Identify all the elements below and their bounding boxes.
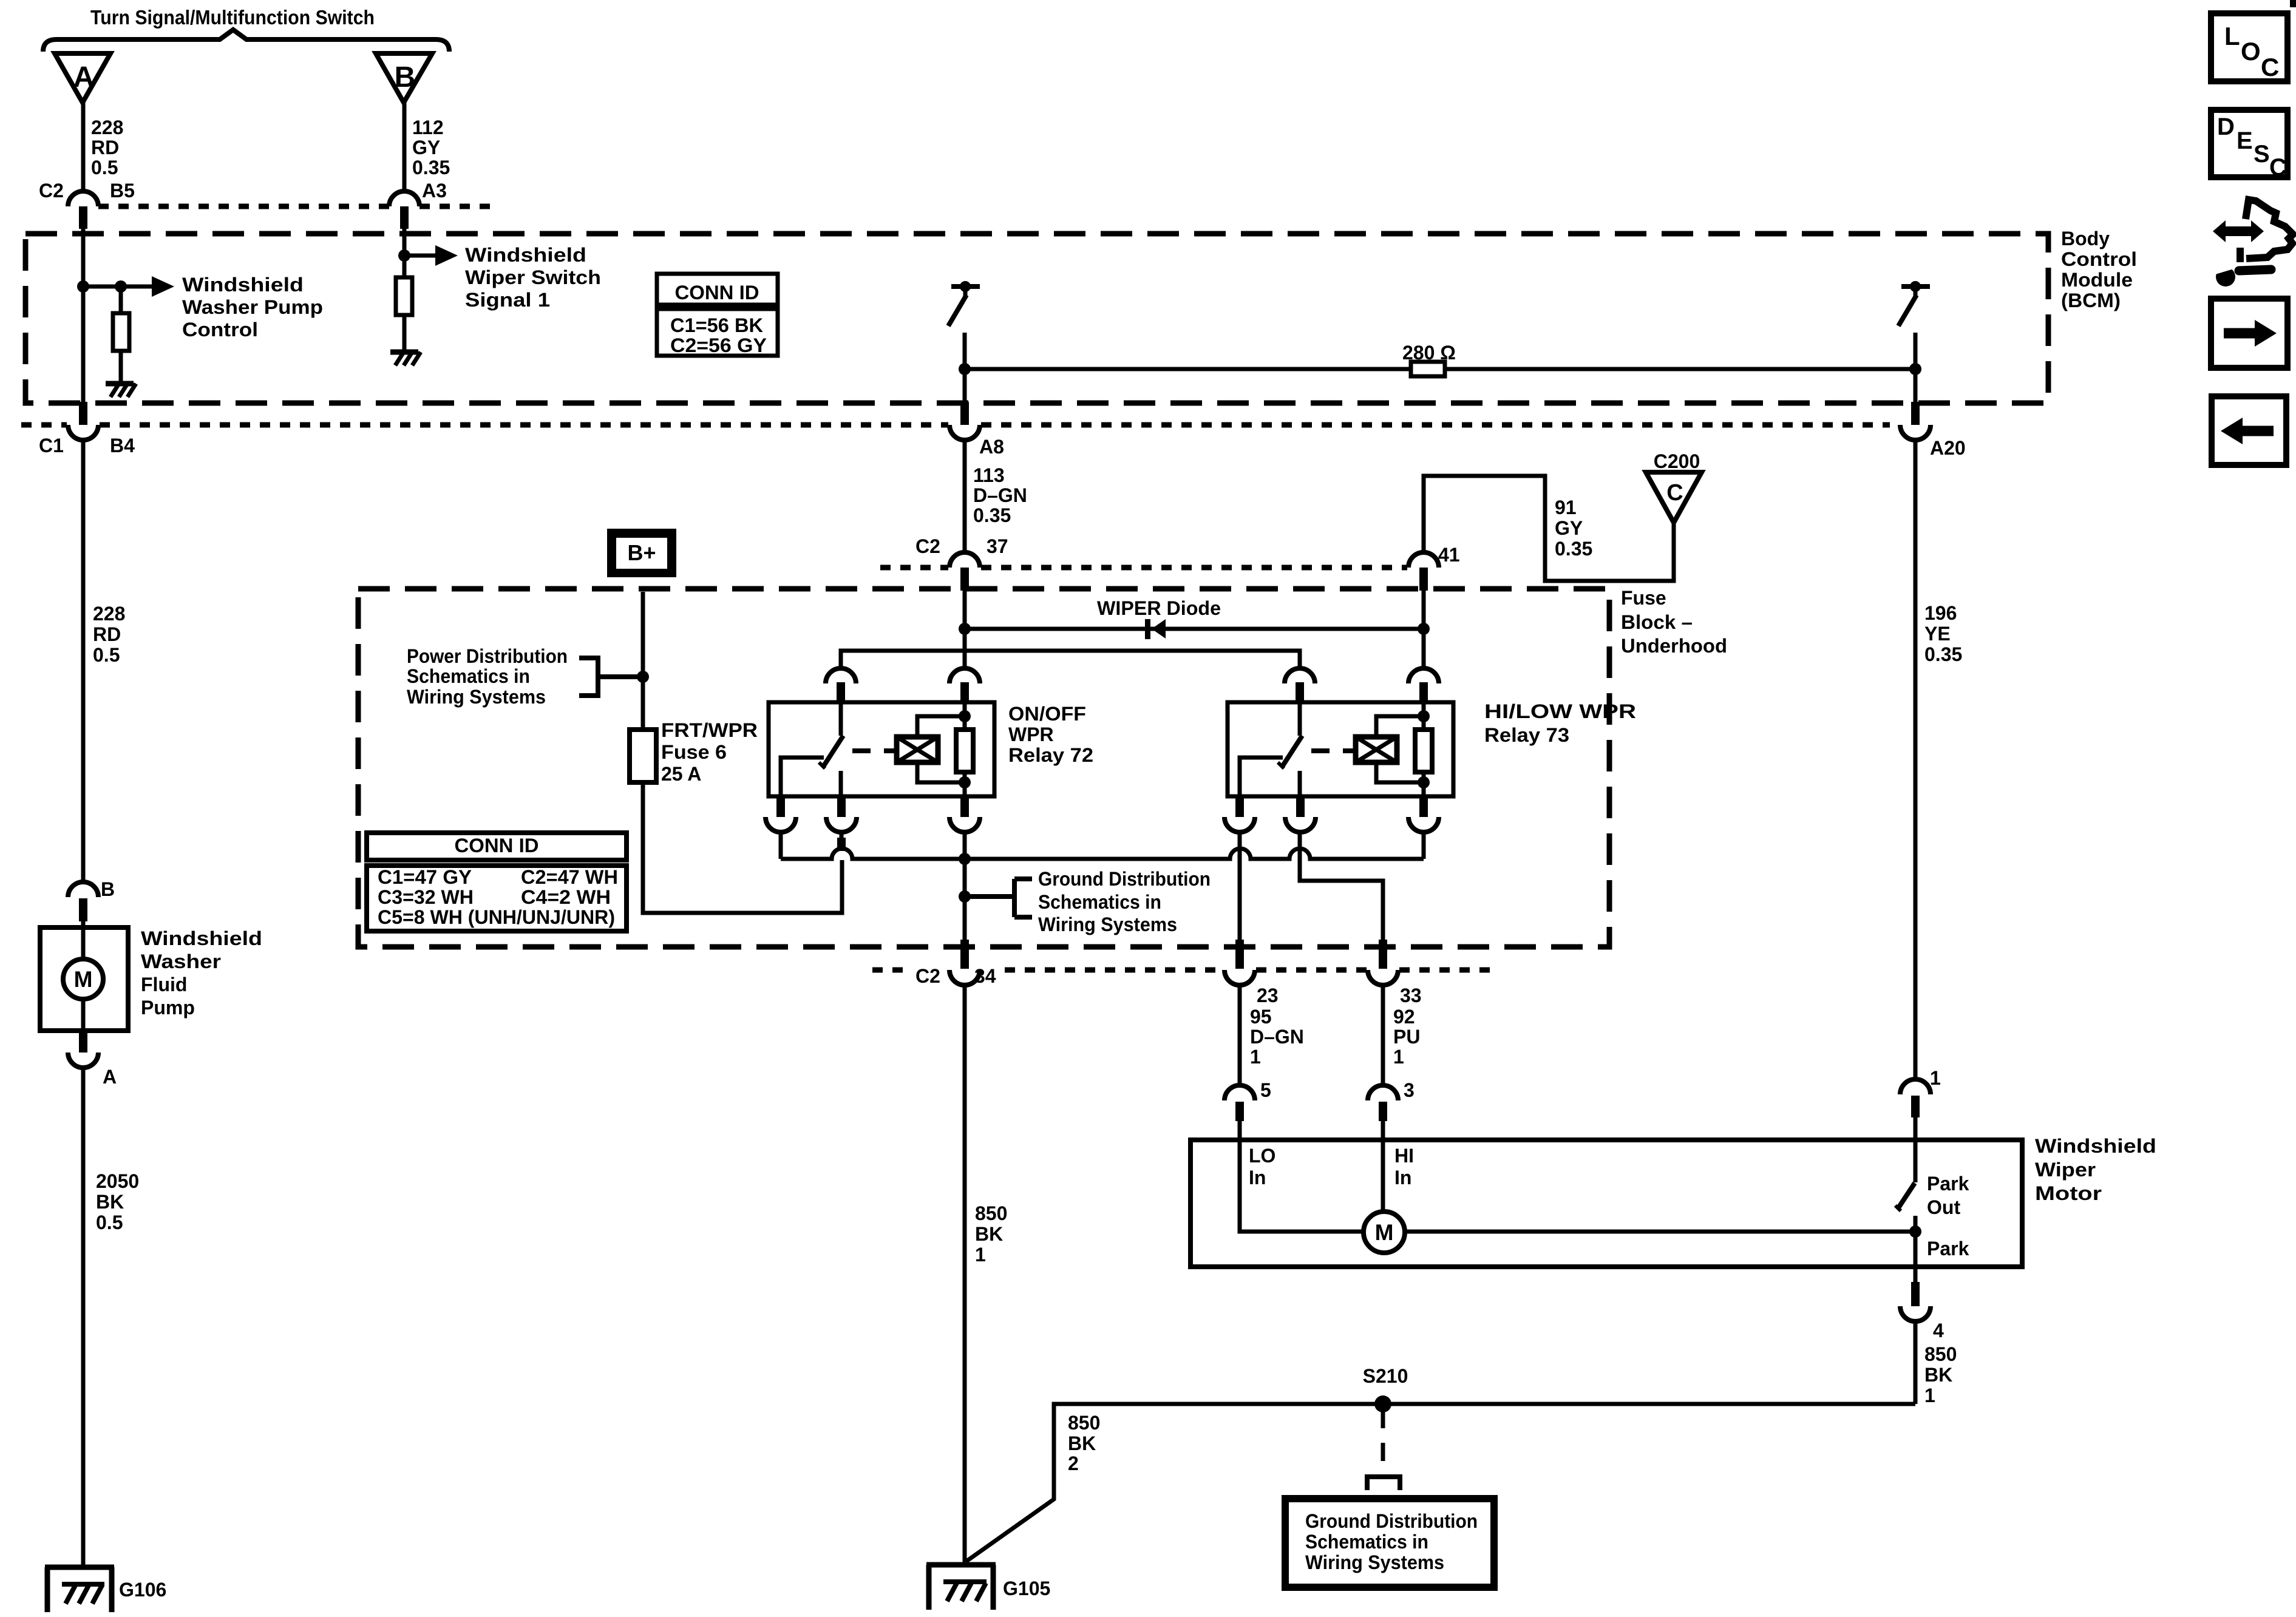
svg-text:B+: B+ [627, 540, 656, 565]
svg-text:HI: HI [1394, 1145, 1414, 1167]
svg-text:850: 850 [1924, 1343, 1957, 1365]
svg-text:C3=32 WH: C3=32 WH [378, 886, 474, 908]
wire diode line [965, 627, 1424, 631]
connector 33 cup [1368, 970, 1398, 985]
connector 1 [1900, 1079, 1931, 1117]
table CONN ID (fuse block) [367, 833, 627, 931]
svg-text:G106: G106 [119, 1579, 166, 1601]
pin A20 [1911, 402, 1920, 425]
connector C2-34 cup [949, 970, 980, 985]
brace for Turn Signal/Multifunction Switch [43, 30, 449, 52]
wire to pull-down resistor [119, 286, 123, 313]
wire relay73 switch pin to connector 33 [1300, 832, 1383, 940]
svg-text:C2: C2 [915, 965, 940, 987]
relay HI/LOW WPR Relay 73 box [1228, 702, 1453, 796]
svg-text:850: 850 [1068, 1412, 1100, 1434]
wire label 92 PU 1 [1393, 1006, 1420, 1068]
svg-text:Park: Park [1927, 1173, 1969, 1195]
wire connector 4 to S210 [1914, 1321, 1918, 1404]
ground G105 [926, 1565, 996, 1610]
svg-text:0.35: 0.35 [1924, 643, 1962, 665]
power feed B+ [607, 529, 676, 577]
wire C2-37 pin to relay72 coil [963, 591, 967, 668]
svg-text:1: 1 [975, 1244, 986, 1266]
svg-text:Windshield: Windshield [465, 244, 586, 266]
wire label 113 D-GN 0.35 [973, 464, 1027, 526]
diode WIPER (cathode bar + arrow) [1145, 619, 1166, 639]
svg-text:95: 95 [1250, 1006, 1272, 1028]
svg-text:C: C [1666, 480, 1683, 506]
svg-text:S: S [2254, 141, 2270, 168]
svg-text:Washer Pump: Washer Pump [182, 296, 323, 318]
svg-text:C5=8 WH (UNH/UNJ/UNR): C5=8 WH (UNH/UNJ/UNR) [378, 906, 615, 928]
svg-text:Fuse 6: Fuse 6 [661, 741, 727, 763]
svg-text:C2=47 WH: C2=47 WH [521, 866, 618, 888]
svg-text:Wiring Systems: Wiring Systems [1305, 1551, 1444, 1573]
svg-text:ON/OFF: ON/OFF [1008, 703, 1086, 725]
svg-text:0.35: 0.35 [973, 504, 1011, 526]
svg-text:Schematics in: Schematics in [1305, 1531, 1428, 1553]
relay ON/OFF WPR Relay 72 actuator dashed link [852, 748, 897, 753]
svg-text:L: L [2224, 22, 2240, 50]
node resistor tap [115, 280, 127, 293]
pin C1/B4 [79, 402, 87, 425]
svg-text:1: 1 [1924, 1385, 1935, 1406]
wire label 112 GY 0.35 [412, 117, 450, 178]
label Windshield Wiper Motor [2035, 1135, 2156, 1204]
svg-text:M: M [74, 967, 93, 992]
svg-text:Park: Park [1927, 1238, 1969, 1259]
wire B+ to fuse [641, 592, 645, 730]
node diode line right [1418, 623, 1430, 635]
node ground distribution tap [959, 890, 971, 903]
bracket ground distribution [965, 879, 1032, 917]
wire A3 pin into BCM [402, 229, 407, 277]
svg-text:YE: YE [1924, 623, 1951, 645]
svg-text:B5: B5 [110, 180, 135, 202]
pin 23 [1235, 940, 1244, 969]
svg-text:4: 4 [1933, 1320, 1944, 1341]
svg-text:2: 2 [1068, 1453, 1079, 1474]
svg-text:Motor: Motor [2035, 1182, 2102, 1204]
wire connector 1 to park switch [1914, 1117, 1918, 1182]
wiper motor M [1364, 1212, 1405, 1253]
arrow Windshield Wiper Switch Signal 1 [404, 245, 458, 266]
svg-text:RD: RD [91, 137, 119, 158]
washer pump box [40, 927, 128, 1031]
svg-text:C2: C2 [915, 535, 940, 557]
svg-text:WPR: WPR [1008, 724, 1054, 745]
svg-text:228: 228 [91, 117, 123, 138]
node HI/LOW WPR Relay 73 coil top [1418, 710, 1430, 722]
connector A20 cup [1900, 425, 1931, 440]
wire S210 splice line [966, 1404, 1915, 1561]
ground G106 [45, 1567, 114, 1612]
svg-text:113: 113 [973, 464, 1005, 486]
wire B5 pin into BCM [81, 229, 86, 286]
relay HI/LOW WPR Relay 73 coil [1356, 737, 1397, 762]
relay ON/OFF WPR Relay 72 coil [897, 737, 938, 762]
svg-text:Ground Distribution: Ground Distribution [1305, 1510, 1478, 1532]
wire relay72 fixed contact to internal line [779, 832, 783, 859]
node ON/OFF WPR Relay 72 coil bottom [959, 776, 971, 788]
svg-text:Power Distribution: Power Distribution [407, 645, 568, 667]
svg-text:Wiper Switch: Wiper Switch [465, 266, 601, 288]
wire relay switch feed line [841, 651, 1300, 668]
resistor washer branch pull-down [113, 313, 129, 351]
pin 4 [1911, 1282, 1920, 1306]
svg-text:Windshield: Windshield [2035, 1135, 2156, 1157]
svg-text:Windshield: Windshield [182, 274, 304, 296]
svg-text:Module: Module [2061, 269, 2133, 291]
svg-text:33: 33 [1400, 985, 1422, 1006]
connector C1/B4 cup [68, 425, 98, 440]
svg-text:0.5: 0.5 [96, 1212, 123, 1233]
svg-text:M: M [1375, 1220, 1394, 1245]
svg-text:A20: A20 [1930, 437, 1966, 459]
relay HI/LOW WPR Relay 73 actuator dashed link [1311, 748, 1356, 753]
wire 280 ohm line right [1445, 367, 1915, 371]
svg-text:C200: C200 [1654, 450, 1700, 472]
relay ON/OFF WPR Relay 72 box [769, 702, 994, 796]
connector ON/OFF WPR Relay 72 coil pin top [949, 668, 980, 702]
svg-text:S210: S210 [1363, 1365, 1408, 1387]
wire 41 pin to relay73 coil [1422, 591, 1426, 668]
wire label 228 RD 0.5 lower [93, 603, 125, 666]
wire 95 D-GN to connector 5 [1238, 985, 1242, 1085]
wire relay72 switch pin to fuse feed [837, 832, 846, 851]
node wiper switch signal [398, 249, 410, 262]
switch park out [1895, 1183, 1915, 1211]
svg-text:196: 196 [1924, 602, 1957, 624]
svg-text:PU: PU [1393, 1026, 1420, 1048]
svg-text:Relay 72: Relay 72 [1008, 744, 1093, 766]
relay ON/OFF WPR Relay 72 switch [819, 702, 843, 796]
svg-text:O: O [2241, 37, 2261, 66]
svg-text:C1: C1 [39, 435, 64, 456]
svg-text:Turn Signal/Multifunction Swit: Turn Signal/Multifunction Switch [90, 6, 375, 29]
svg-text:1: 1 [1930, 1067, 1941, 1089]
svg-text:A: A [103, 1066, 117, 1088]
wire dashed S210 to ground distribution [1381, 1410, 1385, 1473]
svg-text:Control: Control [2061, 248, 2137, 270]
node internal line at relay72 coil [959, 853, 971, 865]
connector HI/LOW WPR Relay 73 coil pin bottom [1408, 796, 1439, 832]
wire branch to resistor tap [83, 285, 121, 289]
label FRT/WPR Fuse 6 25 A [661, 719, 758, 785]
connector ON/OFF WPR Relay 72 switch pin top [826, 668, 856, 702]
off-page ground symbol [1367, 1477, 1400, 1490]
svg-text:Wiper: Wiper [2035, 1159, 2096, 1181]
svg-text:BK: BK [975, 1223, 1003, 1245]
svg-text:A3: A3 [422, 180, 447, 202]
svg-text:LO: LO [1249, 1145, 1275, 1167]
switch BCM wiper on/off output [948, 281, 980, 326]
label Body Control Module (BCM) [2061, 228, 2137, 311]
icon right arrow box [2211, 299, 2288, 368]
wire relay73 coil bottom to internal line [1422, 832, 1426, 859]
node HI/LOW WPR Relay 73 coil bottom [1418, 776, 1430, 788]
svg-text:23: 23 [1257, 985, 1279, 1006]
svg-text:D–GN: D–GN [1250, 1026, 1304, 1048]
resistor 280 ohm [1411, 362, 1445, 376]
svg-text:C: C [2261, 53, 2279, 81]
svg-text:228: 228 [93, 603, 125, 625]
connector C2-37 [949, 552, 980, 591]
Fuse Block Underhood dashed boundary [358, 589, 1609, 947]
connector HI/LOW WPR Relay 73 coil pin top [1408, 668, 1439, 702]
windshield wiper motor box [1190, 1140, 2022, 1267]
switch BCM wiper hi/low output [1898, 281, 1930, 326]
wire A8 to C2-37 [963, 440, 967, 552]
icon left arrow box [2212, 396, 2286, 465]
pin 33 [1379, 940, 1387, 969]
wire label 91 GY 0.35 [1555, 497, 1592, 560]
wire 228 RD to washer pump [81, 440, 86, 882]
wire 2050 BK to G106 [81, 1068, 86, 1565]
pin A washer pump [79, 1031, 87, 1053]
wire fuse output down-right-up to relay72 feed [643, 782, 842, 913]
svg-text:1: 1 [1250, 1046, 1261, 1068]
svg-text:FRT/WPR: FRT/WPR [661, 719, 758, 741]
wire switch to A8 [963, 333, 967, 402]
connector ON/OFF WPR Relay 72 switch pin bottom [826, 796, 857, 832]
svg-text:G105: G105 [1003, 1578, 1050, 1599]
svg-text:C2=56 GY: C2=56 GY [670, 334, 767, 356]
svg-text:Fluid: Fluid [141, 974, 187, 995]
connector A8 cup [949, 425, 980, 440]
wire label 850 BK 1 right [1924, 1343, 1957, 1406]
svg-text:0.35: 0.35 [412, 157, 450, 178]
wire 850 BK C2-34 to G105 [963, 985, 967, 1565]
svg-text:92: 92 [1393, 1006, 1415, 1028]
svg-text:BK: BK [1924, 1364, 1952, 1386]
wire switch to A20 [1914, 333, 1918, 402]
svg-text:A8: A8 [979, 436, 1004, 458]
wire label 95 D-GN 1 [1250, 1006, 1304, 1068]
connector ON/OFF WPR Relay 72 coil pin bottom [949, 796, 980, 832]
Body Control Module (BCM) dashed boundary [25, 234, 2048, 403]
node park [1909, 1225, 1921, 1238]
svg-text:Wiring Systems: Wiring Systems [1038, 914, 1177, 935]
svg-text:CONN ID: CONN ID [455, 835, 539, 856]
node 280 ohm right [1909, 363, 1921, 375]
svg-text:91: 91 [1555, 497, 1577, 518]
svg-text:C4=2 WH: C4=2 WH [521, 886, 611, 908]
wire triangle B down [402, 103, 407, 191]
wire 41 to C200 riser [1424, 476, 1674, 581]
label Windshield Washer Pump Control [182, 274, 323, 341]
svg-text:0.5: 0.5 [93, 644, 120, 666]
connector HI/LOW WPR Relay 73 fixed-contact pin bottom [1224, 796, 1255, 832]
wire relay72 coil bottom down [963, 832, 967, 940]
splice S210 [1374, 1395, 1391, 1412]
svg-text:B4: B4 [110, 435, 135, 456]
svg-text:C1=56 BK: C1=56 BK [670, 314, 763, 336]
svg-text:34: 34 [974, 965, 996, 987]
svg-text:Pump: Pump [141, 997, 195, 1019]
svg-text:Body: Body [2061, 228, 2110, 249]
wire resistor to ground [402, 315, 407, 351]
svg-text:C: C [2269, 154, 2287, 181]
svg-text:Washer: Washer [141, 951, 221, 972]
connector 41 [1408, 552, 1439, 591]
connector line dotted BCM bottom [21, 422, 1890, 428]
wire 280 ohm line left [965, 367, 1411, 371]
relay HI/LOW WPR Relay 73 coil loop wires [1376, 716, 1424, 782]
svg-text:37: 37 [987, 535, 1008, 557]
label Power Distribution Schematics in Wiring Systems [407, 645, 568, 708]
label HI In [1394, 1145, 1414, 1188]
icon LOC box [2211, 13, 2288, 81]
wire motor to park node [1405, 1230, 1915, 1234]
arrow Windshield Washer Pump Control [121, 276, 174, 297]
connector A cup [68, 1053, 98, 1068]
svg-text:BK: BK [96, 1191, 124, 1213]
svg-text:C1=47 GY: C1=47 GY [378, 866, 472, 888]
svg-text:Relay 73: Relay 73 [1484, 724, 1569, 746]
icon service hand with arrow and wrench [2213, 200, 2293, 286]
resistor wiper branch pull-down [396, 277, 412, 315]
wire 196 YE A20 to connector 1 [1914, 440, 1918, 1079]
wire LO In to motor [1240, 1121, 1364, 1232]
relay ON/OFF WPR Relay 72 coil loop wires [917, 716, 965, 782]
wire 92 PU to connector 3 [1381, 985, 1385, 1085]
wire resistor to ground [119, 351, 123, 382]
relay HI/LOW WPR Relay 73 switch [1278, 702, 1302, 796]
ground BCM washer branch [106, 384, 136, 397]
svg-text:Schematics in: Schematics in [407, 665, 530, 687]
svg-text:Block –: Block – [1621, 611, 1693, 633]
wire label 850 BK 1 center [975, 1202, 1007, 1266]
node washer pump branch [77, 280, 89, 293]
svg-text:GY: GY [1555, 517, 1583, 539]
ground BCM wiper branch [390, 352, 421, 365]
svg-text:Underhood: Underhood [1621, 635, 1727, 657]
svg-text:D–GN: D–GN [973, 484, 1027, 506]
wire HI In to motor [1381, 1121, 1385, 1212]
label ON/OFF WPR Relay 72 [1008, 703, 1093, 766]
relay HI/LOW WPR Relay 73 resistor [1415, 702, 1432, 796]
washer pump motor M [63, 959, 103, 999]
svg-text:0.5: 0.5 [91, 157, 118, 178]
connector triangle C200 [1646, 472, 1702, 523]
svg-text:Schematics in: Schematics in [1038, 891, 1161, 913]
svg-text:1: 1 [1393, 1046, 1404, 1068]
svg-text:0.35: 0.35 [1555, 538, 1592, 560]
svg-text:280 Ω: 280 Ω [1402, 342, 1456, 364]
svg-text:C2: C2 [39, 180, 64, 202]
wire triangle A down [81, 103, 86, 191]
svg-text:Wiring Systems: Wiring Systems [407, 686, 546, 708]
connector B washer pump [68, 882, 98, 921]
connector triangle B [376, 53, 432, 103]
pin C2-34 [960, 940, 969, 969]
node ON/OFF WPR Relay 72 coil top [959, 710, 971, 722]
svg-text:Control: Control [182, 319, 258, 341]
svg-text:3: 3 [1404, 1079, 1415, 1101]
svg-text:RD: RD [93, 623, 121, 645]
svg-text:Out: Out [1927, 1196, 1960, 1218]
svg-text:D: D [2217, 114, 2235, 140]
svg-text:A: A [73, 61, 95, 93]
relay ON/OFF WPR Relay 72 resistor [956, 702, 973, 796]
connector triangle A [55, 53, 110, 103]
relay HI/LOW WPR Relay 73 switch fixed contact [1240, 758, 1283, 796]
connector 4 cup [1900, 1306, 1931, 1321]
pin A8 [960, 402, 969, 425]
svg-text:Windshield: Windshield [141, 927, 262, 949]
wire B5 to C1 [81, 286, 86, 402]
svg-text:GY: GY [412, 137, 440, 158]
svg-text:25 A: 25 A [661, 763, 701, 785]
svg-text:HI/LOW WPR: HI/LOW WPR [1484, 700, 1636, 722]
pump wire inside box [81, 927, 86, 959]
bracket power distribution [579, 658, 643, 696]
icon DESC box [2211, 110, 2288, 181]
page corner mark [2290, 0, 2296, 7]
svg-text:BK: BK [1068, 1432, 1096, 1454]
svg-text:Signal 1: Signal 1 [465, 289, 550, 311]
label Windshield Wiper Switch Signal 1 [465, 244, 601, 311]
wire label 850 BK 2 [1068, 1412, 1100, 1474]
wire fuse block internal line with hops [781, 849, 1424, 859]
svg-text:5: 5 [1260, 1079, 1271, 1101]
connector 23 cup [1224, 970, 1255, 985]
node diode line left [959, 623, 971, 635]
label Windshield Washer Fluid Pump [141, 927, 262, 1019]
label Fuse Block - Underhood [1621, 587, 1727, 657]
node power distribution tap [637, 671, 649, 683]
table CONN ID (BCM) [657, 274, 778, 356]
label Park Out [1927, 1173, 1969, 1218]
box Ground Distribution Schematics in Wiring Systems [1285, 1499, 1494, 1587]
connector line dotted 37-41 [880, 565, 1407, 571]
connector HI/LOW WPR Relay 73 switch pin bottom [1285, 796, 1316, 832]
svg-text:Ground Distribution: Ground Distribution [1038, 868, 1211, 890]
svg-text:In: In [1249, 1167, 1266, 1188]
label LO In [1249, 1145, 1275, 1188]
connector A3 [389, 191, 419, 229]
svg-text:In: In [1394, 1167, 1411, 1188]
svg-text:2050: 2050 [96, 1170, 139, 1192]
label HI/LOW WPR Relay 73 [1484, 700, 1636, 746]
svg-text:WIPER Diode: WIPER Diode [1097, 597, 1221, 619]
svg-text:Fuse: Fuse [1621, 587, 1666, 609]
wire label 196 YE 0.35 [1924, 602, 1962, 665]
wire label 2050 BK 0.5 [96, 1170, 139, 1233]
relay ON/OFF WPR Relay 72 switch fixed contact [781, 758, 824, 796]
connector ON/OFF WPR Relay 72 fixed-contact pin bottom [766, 796, 796, 832]
fuse FRT/WPR Fuse 6 25A [630, 730, 656, 782]
connector line dotted C2-34/23/33 [872, 968, 1493, 973]
svg-text:(BCM): (BCM) [2061, 290, 2121, 311]
svg-text:41: 41 [1438, 544, 1460, 566]
connector 3 [1368, 1085, 1398, 1121]
svg-text:112: 112 [412, 117, 444, 138]
wire relay73 fixed contact to connector 23 [1238, 832, 1242, 940]
connector HI/LOW WPR Relay 73 switch pin top [1285, 668, 1315, 702]
wire park to box bottom [1914, 1216, 1918, 1282]
connector line dotted B5-A3 [98, 204, 492, 209]
wire pin B to pump box [81, 921, 86, 927]
connector C2/B5 [68, 191, 98, 229]
svg-text:CONN ID: CONN ID [675, 282, 759, 303]
svg-text:B: B [101, 878, 115, 900]
svg-text:B: B [395, 61, 416, 93]
node 280 ohm left [959, 363, 971, 375]
svg-text:850: 850 [975, 1202, 1007, 1224]
